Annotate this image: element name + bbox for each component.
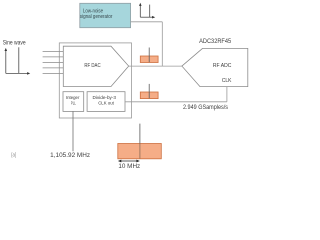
wire ADC CLK input vertical segment — [226, 86, 228, 101]
svg-text:CLK out: CLK out — [98, 100, 114, 105]
output spectrum tone spike — [139, 124, 141, 159]
wire SG1 down segment to RF node — [161, 22, 163, 66]
wire digital input bus bit 1 — [43, 50, 64, 52]
wire digital input bus bit 4 — [43, 67, 64, 69]
band-pass filter F1 (RF path) — [140, 48, 158, 63]
wire digital input bus bit 3 — [43, 61, 64, 63]
bandwidth measure arrow — [118, 160, 140, 163]
wire digital input bus bit 5 — [43, 72, 64, 74]
RF ADC device U2 with CLK pin — [182, 48, 248, 86]
svg-text:1,105.92 MHz: 1,105.92 MHz — [50, 153, 90, 159]
svg-text:RF ADC: RF ADC — [213, 63, 232, 69]
svg-text:Divide-by-3: Divide-by-3 — [93, 95, 117, 100]
wire divide-by-3 output to ADC CLK horizontal segment — [125, 101, 227, 103]
svg-text:CLK: CLK — [222, 78, 232, 84]
signal generator SG1 (Low-noise signal generator) — [80, 3, 131, 27]
integer PLL block (inside U1) — [63, 92, 84, 112]
DAC device outline U1 — [59, 43, 131, 118]
svg-text:Integer: Integer — [66, 95, 80, 100]
wire SG1 output horizontal segment — [131, 21, 163, 23]
output spectrum band — [118, 144, 162, 159]
svg-text:RF DAC: RF DAC — [84, 63, 100, 69]
wire PLL reference input — [72, 112, 74, 152]
sine-wave spectrum axes icon (left) — [5, 47, 31, 74]
band-pass filter F2 (clock path) — [140, 84, 158, 99]
wire RF DAC output to RF ADC input — [129, 65, 182, 67]
clock spectrum axes icon (top) — [139, 3, 155, 19]
RF DAC block (inside U1) — [63, 46, 128, 86]
svg-text:10 MHz: 10 MHz — [118, 164, 140, 170]
wire digital input bus bit 2 — [43, 56, 64, 58]
svg-text:PLL: PLL — [71, 100, 76, 105]
svg-text:signal generator: signal generator — [80, 14, 113, 20]
svg-text:ADC32RF45: ADC32RF45 — [199, 39, 232, 45]
svg-text:[a]: [a] — [11, 153, 16, 159]
svg-text:Sine wave: Sine wave — [3, 41, 27, 47]
divide-by-3 CLK out block (inside U1) — [87, 92, 125, 112]
svg-text:2.949 GSamples/s: 2.949 GSamples/s — [183, 105, 228, 111]
